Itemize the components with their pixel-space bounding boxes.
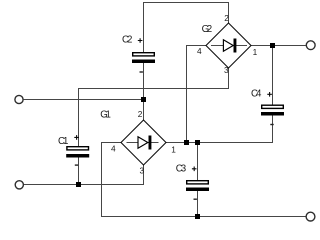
wire node J6 down to C4 top	[272, 46, 274, 105]
wire G1 pin 1 through J2 J3 to C4 bottom	[166, 116, 273, 143]
bridge rectifier G1	[121, 120, 166, 165]
wire G1 pin 4 to bottom rail to T4	[102, 143, 307, 217]
capacitor C2	[132, 38, 155, 73]
svg-text:1: 1	[171, 145, 176, 155]
junction J1	[141, 97, 146, 102]
svg-text:2: 2	[138, 109, 143, 119]
wire C2 bottom through J1 to G1 pin 2	[143, 63, 145, 120]
bridge rectifier G2	[206, 23, 251, 68]
svg-text:C3: C3	[176, 164, 186, 175]
svg-text:3: 3	[224, 65, 229, 75]
svg-text:C4: C4	[251, 89, 262, 100]
terminal T1 (input top-left)	[15, 95, 23, 103]
terminal T2 (input bottom-left)	[15, 181, 23, 189]
svg-text:C1: C1	[58, 136, 68, 147]
capacitor C1	[66, 135, 89, 166]
junction J4	[195, 214, 200, 219]
svg-text:G2: G2	[202, 24, 213, 35]
wire G2 pin 3 to C1 top	[79, 68, 229, 146]
svg-text:1: 1	[253, 47, 258, 57]
wire node J2 up to G2 pin 4	[187, 46, 207, 143]
capacitor C3	[186, 167, 209, 200]
junction J6	[270, 43, 275, 48]
wire T2 through J5 to G1 pin 3	[24, 165, 144, 185]
junction J2	[184, 140, 189, 145]
svg-text:G1: G1	[100, 109, 111, 120]
svg-text:2: 2	[224, 13, 229, 23]
junction J3	[195, 140, 200, 145]
junction J5	[76, 182, 81, 187]
svg-text:4: 4	[111, 144, 116, 154]
svg-text:C2: C2	[122, 35, 132, 46]
terminal T3 (output top-right)	[306, 41, 315, 50]
capacitor C4	[261, 92, 284, 125]
wire T1 to node J1	[24, 99, 144, 101]
svg-text:3: 3	[140, 166, 145, 176]
wire C1 bottom to node J5	[78, 158, 80, 185]
wire G2 pin 1 through J6 to T3	[251, 45, 306, 47]
wire C3 bottom to bottom rail node J4	[197, 191, 199, 217]
wire node J3 down to C3 top	[197, 143, 199, 181]
svg-text:4: 4	[197, 46, 202, 56]
terminal T4 (output bottom-right)	[306, 212, 315, 221]
wire C2 top to G2 pin 2 (top rail)	[144, 3, 229, 53]
